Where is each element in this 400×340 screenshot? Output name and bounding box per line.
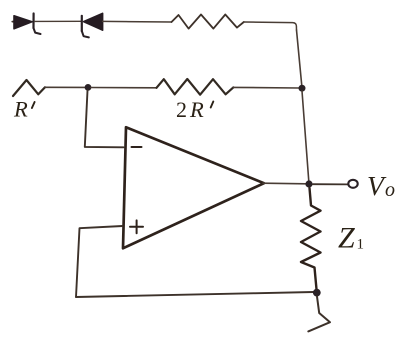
node junction right rail row2	[299, 85, 306, 92]
wire node row2 down to inverting input	[85, 91, 124, 148]
wire noninverting input	[76, 226, 123, 297]
wire output to terminal	[313, 183, 347, 185]
resistor R'	[13, 80, 45, 96]
wire op-amp output	[263, 182, 306, 185]
node junction row2	[85, 84, 92, 91]
wire node to 2R'	[91, 87, 157, 89]
diode D1	[14, 14, 41, 35]
wire diode D2 to top resistor	[103, 20, 172, 23]
node junction bottom	[313, 289, 321, 297]
wire R' to node	[45, 86, 85, 88]
wire top-left anode lead	[12, 21, 14, 23]
svg-text:2: 2	[176, 97, 187, 122]
svg-text:1: 1	[357, 237, 365, 253]
wire right rail upper	[297, 30, 303, 88]
terminal Vo open circle	[348, 180, 357, 188]
wire tail squiggle	[308, 297, 330, 332]
wire between diodes	[35, 20, 82, 22]
node junction output	[305, 180, 312, 187]
diode D2	[82, 13, 103, 37]
wire 2R' to right rail	[233, 86, 299, 89]
op-amp U1	[123, 127, 264, 248]
svg-text:Z: Z	[338, 222, 355, 255]
svg-text:R: R	[13, 97, 28, 122]
resistor Z1	[301, 188, 321, 293]
wire bottom feedback	[76, 292, 314, 297]
wire top resistor to right corner	[244, 22, 297, 30]
resistor R top	[172, 15, 244, 29]
svg-text:V: V	[367, 170, 387, 201]
svg-text:o: o	[385, 179, 395, 201]
svg-text:R: R	[189, 97, 204, 122]
resistor 2R'	[157, 79, 234, 95]
wire right rail lower	[302, 91, 309, 184]
